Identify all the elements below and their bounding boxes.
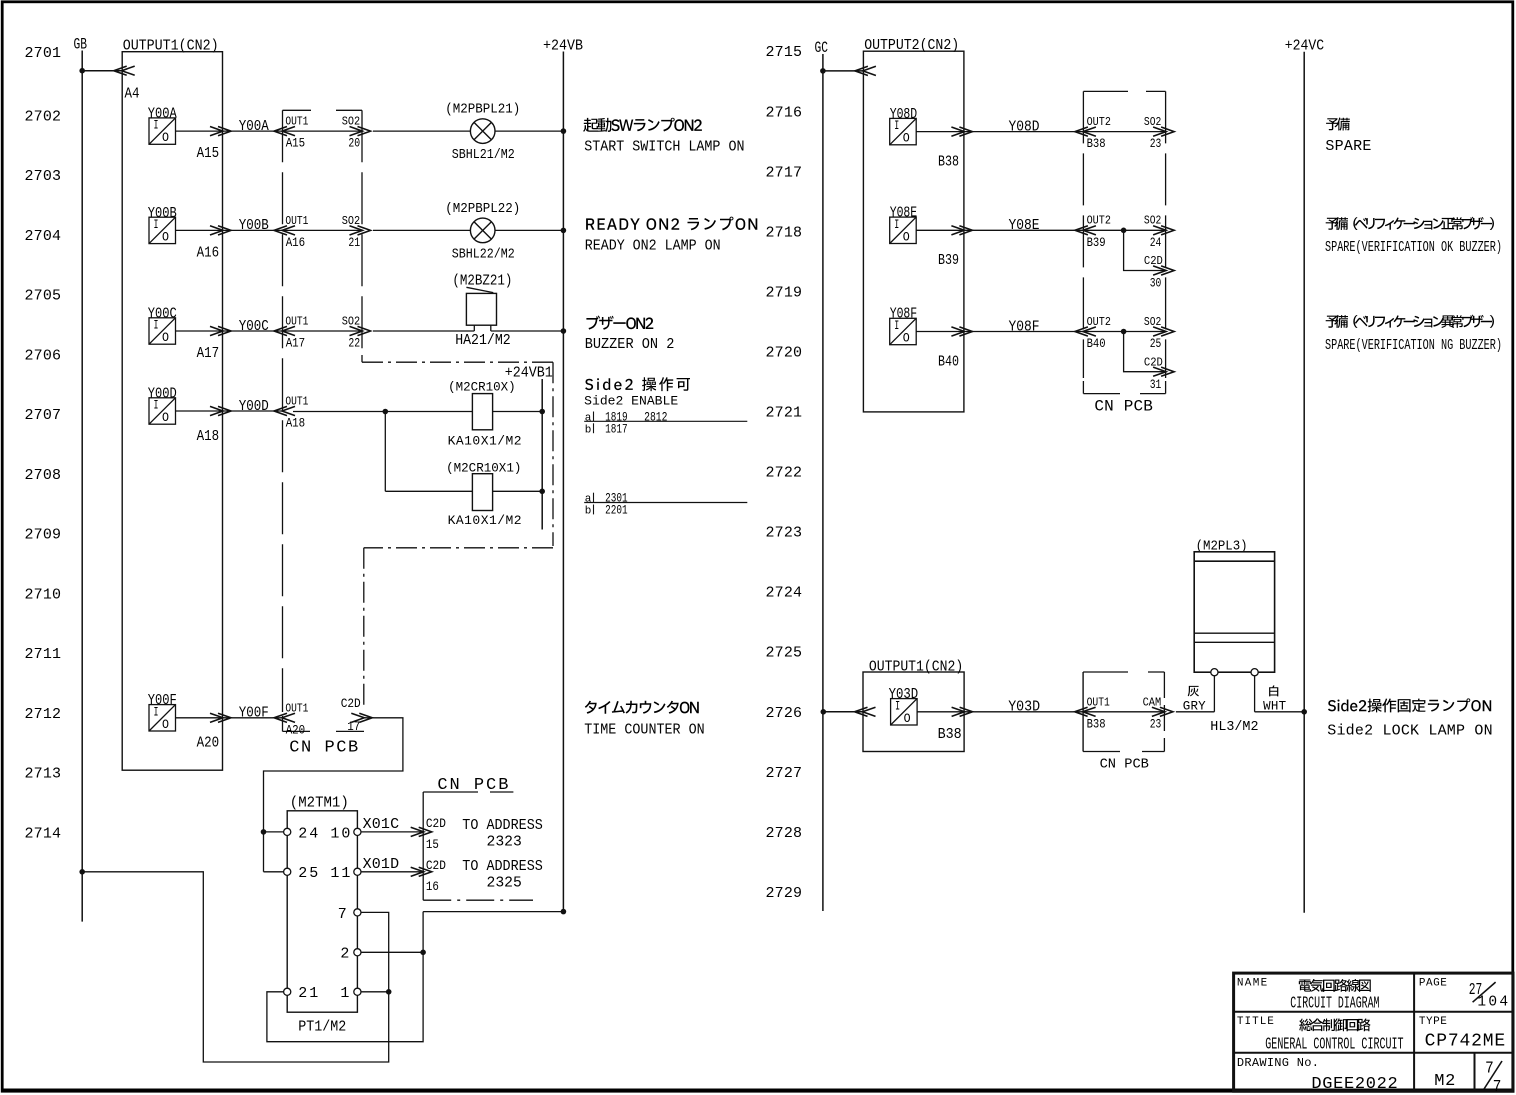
wire ref rule 2708 <box>584 502 747 504</box>
pin SO2/22 arrows <box>350 326 363 335</box>
wire net Y00A <box>223 130 283 132</box>
wire Y08D to bus <box>916 131 963 133</box>
svg-text:TO ADDRESS: TO ADDRESS <box>462 858 543 875</box>
pin OUT1/A15 arrows <box>282 127 295 136</box>
svg-text:OUT2: OUT2 <box>1087 315 1111 329</box>
svg-text:2711: 2711 <box>25 646 62 663</box>
wire Y00C to bus <box>176 330 223 332</box>
lead label WHT <box>1269 685 1278 696</box>
terminal GRY <box>1211 669 1218 676</box>
wire pin10 to X01C <box>361 831 423 833</box>
svg-text:2727: 2727 <box>766 765 803 782</box>
svg-text:SPARE(VERIFICATION NG BUZZER): SPARE(VERIFICATION NG BUZZER) <box>1325 337 1502 354</box>
svg-text:OUT1: OUT1 <box>1087 695 1110 709</box>
svg-text:A17: A17 <box>197 346 220 362</box>
svg-text:O: O <box>903 332 910 346</box>
svg-text:2709: 2709 <box>25 527 62 544</box>
svg-text:11: 11 <box>330 865 350 882</box>
svg-text:(M2PBPL22): (M2PBPL22) <box>445 201 520 217</box>
I/O module Y08D <box>890 107 959 171</box>
svg-text:TITLE: TITLE <box>1237 1016 1274 1028</box>
connector pin A15 arrows <box>210 127 223 136</box>
svg-text:SBHL22/M2: SBHL22/M2 <box>452 247 515 263</box>
svg-text:OUT1: OUT1 <box>285 315 308 329</box>
svg-text:24: 24 <box>298 825 318 842</box>
wire second relay to +24VB1 <box>493 490 543 492</box>
wire inside CN PCB <box>283 130 362 132</box>
junction pin 24 branch <box>261 829 267 835</box>
svg-text:Side2 ENABLE: Side2 ENABLE <box>584 394 678 409</box>
svg-text:START SWITCH LAMP ON: START SWITCH LAMP ON <box>584 139 744 156</box>
wire pin11 to X01D <box>361 871 423 873</box>
wire pin2 branch <box>361 951 423 953</box>
wire net Y00F <box>223 717 283 719</box>
svg-text:16: 16 <box>426 879 439 894</box>
svg-text:I: I <box>154 399 159 413</box>
svg-text:b: b <box>585 424 592 436</box>
wire Y08F to bus <box>916 331 963 333</box>
connector OUTPUT1(CN2) box <box>122 52 222 771</box>
svg-text:2724: 2724 <box>766 585 803 602</box>
junction GC row 2726 <box>821 709 827 715</box>
svg-text:A4: A4 <box>125 86 140 103</box>
svg-text:READY ON2 LAMP ON: READY ON2 LAMP ON <box>585 238 721 255</box>
svg-text:2706: 2706 <box>25 347 62 364</box>
svg-text:I: I <box>894 119 899 133</box>
svg-text:B40: B40 <box>938 354 959 370</box>
svg-text:A18: A18 <box>197 429 220 445</box>
svg-text:Y08D: Y08D <box>1009 118 1040 135</box>
wire inside CN PCB <box>283 229 362 231</box>
svg-text:2714: 2714 <box>25 825 62 842</box>
svg-text:2710: 2710 <box>25 586 62 603</box>
wire C2D-17 jog to M2TM1 <box>264 718 403 872</box>
wire inside CN PCB right <box>1084 331 1165 333</box>
svg-text:OUT1: OUT1 <box>285 395 308 409</box>
svg-text:SO2: SO2 <box>1144 115 1161 129</box>
svg-text:104: 104 <box>1477 994 1508 1010</box>
svg-text:(M2BZ21): (M2BZ21) <box>452 274 512 290</box>
pin 25 <box>284 868 291 875</box>
svg-text:2325: 2325 <box>487 875 522 892</box>
svg-text:O: O <box>903 132 910 146</box>
svg-text:2703: 2703 <box>25 168 62 185</box>
svg-text:B38: B38 <box>1087 717 1106 731</box>
svg-text:O: O <box>903 230 910 244</box>
svg-text:HL3/M2: HL3/M2 <box>1210 720 1258 735</box>
svg-text:30: 30 <box>1150 277 1162 291</box>
svg-text:GENERAL CONTROL CIRCUIT: GENERAL CONTROL CIRCUIT <box>1265 1036 1403 1055</box>
wire CAM to lamp GRY lead <box>1176 711 1215 713</box>
svg-text:A16: A16 <box>197 246 220 262</box>
svg-text:SO2: SO2 <box>342 214 360 228</box>
wire pin21 loop <box>267 912 423 1042</box>
svg-text:CN PCB: CN PCB <box>1100 757 1149 773</box>
wire to pin 24 <box>264 831 284 833</box>
svg-text:M2: M2 <box>1434 1072 1455 1091</box>
svg-text:15: 15 <box>426 837 439 852</box>
wire lamp to +24VB <box>495 229 563 231</box>
svg-text:2701: 2701 <box>25 45 62 62</box>
svg-text:17: 17 <box>347 719 360 734</box>
svg-text:B39: B39 <box>1087 236 1106 250</box>
wire Y00B to bus <box>176 229 223 231</box>
svg-text:(M2PBPL21): (M2PBPL21) <box>445 102 520 118</box>
connector pin A16 arrows <box>210 226 223 235</box>
wire branch down to second relay <box>384 412 386 492</box>
junction GB row 2701 <box>79 68 85 74</box>
svg-text:2702: 2702 <box>25 108 62 125</box>
svg-text:24: 24 <box>1150 236 1162 250</box>
svg-text:+24VC: +24VC <box>1285 37 1324 54</box>
wire GC to OUTPUT1 connector bottom <box>823 711 863 713</box>
svg-text:2712: 2712 <box>25 706 62 723</box>
svg-text:31: 31 <box>1150 378 1162 392</box>
I/O module Y00B <box>148 206 219 262</box>
svg-text:2705: 2705 <box>25 288 62 305</box>
wire net Y00D <box>223 410 283 412</box>
svg-text:PAGE: PAGE <box>1419 977 1447 989</box>
svg-text:2726: 2726 <box>766 705 803 722</box>
pin OUT1/A17 arrows <box>282 326 295 335</box>
svg-text:1: 1 <box>340 985 349 1002</box>
svg-text:Y00D: Y00D <box>239 398 269 415</box>
wire GC to OUTPUT2 connector <box>823 70 864 72</box>
wire inside CN PCB bottom <box>1084 711 1164 713</box>
wire C2D branch <box>1124 230 1165 270</box>
junction pin 1 <box>386 989 392 995</box>
wire net Y08F <box>964 331 1084 333</box>
pin OUT2/B38 arrows <box>1083 127 1096 136</box>
svg-text:TYPE: TYPE <box>1419 1016 1447 1028</box>
wire Y00A to bus <box>176 130 223 132</box>
wire SO2-22 to buzzer <box>373 330 474 332</box>
junction GC row 2715 <box>820 68 826 74</box>
connector pin arrows GC <box>863 66 876 75</box>
wire net Y08E <box>964 229 1084 231</box>
pin C2D/15 arrows X01C <box>411 827 424 836</box>
svg-text:GB: GB <box>74 36 88 54</box>
svg-text:23: 23 <box>1150 717 1162 731</box>
junction GB branch row 2713 <box>79 869 85 875</box>
pin 21 <box>284 988 291 995</box>
svg-text:O: O <box>162 230 169 244</box>
pin C2D/16 arrows X01D <box>411 867 424 876</box>
wire Y08E to bus <box>916 229 963 231</box>
grid line numbers left 2701-2714 <box>25 45 62 842</box>
junction node row 2707 <box>383 409 389 415</box>
svg-text:A18: A18 <box>286 417 306 431</box>
wire Y00F to bus <box>176 717 223 719</box>
grid line numbers right 2715-2729 <box>766 44 803 902</box>
wire net Y08D <box>964 131 1084 133</box>
junction +24VB1 row 2707 <box>539 409 545 415</box>
wire buzzer to +24VB <box>491 330 564 332</box>
pin OUT1/B38 arrows bottom <box>1083 707 1096 716</box>
wire Y00D to bus <box>176 410 223 412</box>
svg-text:a: a <box>585 494 592 506</box>
svg-text:I: I <box>894 218 899 232</box>
pin SO2/25 arrows <box>1153 327 1166 336</box>
svg-text:O: O <box>162 331 169 345</box>
pin SO2/20 arrows <box>350 127 363 136</box>
svg-text:2713: 2713 <box>25 766 62 783</box>
svg-text:2723: 2723 <box>766 525 803 542</box>
connector pin A17 arrows <box>210 326 223 335</box>
wire net Y00C <box>223 330 283 332</box>
svg-text:10: 10 <box>330 825 350 842</box>
wire to pin 25 <box>264 871 284 873</box>
svg-text:Y00C: Y00C <box>239 318 269 335</box>
label spare verification ng <box>1326 315 1494 328</box>
svg-text:A15: A15 <box>197 146 220 162</box>
svg-text:SO2: SO2 <box>342 315 360 329</box>
svg-text:2201: 2201 <box>605 503 628 518</box>
svg-text:I: I <box>895 699 900 713</box>
svg-text:Y00F: Y00F <box>239 705 269 722</box>
terminal WHT <box>1251 669 1258 676</box>
I/O module Y00A <box>148 107 219 163</box>
svg-text:O: O <box>162 411 169 425</box>
junction +24VB bottom <box>561 909 567 915</box>
wire C2D branch <box>1124 332 1165 372</box>
svg-text:A17: A17 <box>286 337 306 351</box>
svg-text:C2D: C2D <box>426 816 446 831</box>
CN PCB box bottom right half <box>1083 672 1164 752</box>
connector pin B40 arrows <box>951 327 964 336</box>
junction pin 2 <box>420 950 426 956</box>
pin 2 <box>354 949 361 956</box>
junction C2D branch <box>1121 228 1127 234</box>
label buzzer on 2 <box>586 316 653 330</box>
pin SO2/21 arrows <box>350 226 363 235</box>
wire Y03D to bus <box>917 711 964 713</box>
svg-text:DRAWING No.: DRAWING No. <box>1237 1056 1319 1070</box>
net GC rail <box>822 54 824 911</box>
pin OUT1/A20 arrows <box>282 713 295 722</box>
CN PCB boundary box left <box>283 109 312 111</box>
connector pin A4 arrows <box>122 66 135 75</box>
svg-text:SBHL21/M2: SBHL21/M2 <box>452 147 515 163</box>
svg-text:+24VB1: +24VB1 <box>505 365 553 382</box>
title block <box>1234 973 1513 1091</box>
wire net Y03D <box>964 711 1083 713</box>
wire lamp to +24VB <box>495 130 563 132</box>
svg-text:OUT2: OUT2 <box>1087 115 1111 129</box>
svg-text:B38: B38 <box>1087 137 1106 151</box>
wire inside CN PCB right <box>1084 229 1165 231</box>
pin C2D/31 arrows <box>1153 367 1166 376</box>
svg-text:2728: 2728 <box>766 825 803 842</box>
svg-text:C2D: C2D <box>341 696 361 711</box>
junction +24VB row 2706 <box>561 328 567 334</box>
svg-text:SO2: SO2 <box>342 115 360 129</box>
label time counter on <box>585 701 699 714</box>
wire net Y00B <box>223 229 283 231</box>
svg-text:TO ADDRESS: TO ADDRESS <box>462 817 543 834</box>
label ready on2 lamp on <box>586 217 757 231</box>
wire inside CN PCB <box>283 330 362 332</box>
CN PCB boundary jog dash-dot <box>362 361 553 363</box>
svg-text:OUTPUT1(CN2): OUTPUT1(CN2) <box>869 658 963 675</box>
junction C2D branch <box>1121 329 1127 335</box>
svg-text:2719: 2719 <box>766 284 803 301</box>
svg-text:B39: B39 <box>938 253 959 269</box>
svg-text:b: b <box>585 506 592 518</box>
lamp SBHL21/M2 <box>470 119 495 144</box>
svg-text:C2D: C2D <box>426 858 446 873</box>
svg-text:2721: 2721 <box>766 405 803 422</box>
wire WHT to +24VC <box>1255 711 1305 713</box>
pin 1 <box>354 988 361 995</box>
svg-text:SO2: SO2 <box>1144 315 1161 329</box>
svg-text:(M2TM1): (M2TM1) <box>290 795 349 812</box>
pin 7 <box>354 909 361 916</box>
svg-text:2323: 2323 <box>487 833 522 850</box>
svg-text:I: I <box>154 705 159 719</box>
svg-text:2716: 2716 <box>766 104 803 121</box>
timer M2TM1 box <box>287 811 357 1012</box>
svg-text:KA10X1/M2: KA10X1/M2 <box>448 513 522 528</box>
CN PCB boundary box right <box>1083 91 1165 393</box>
svg-text:21: 21 <box>298 985 318 1002</box>
svg-text:SPARE(VERIFICATION OK BUZZER): SPARE(VERIFICATION OK BUZZER) <box>1325 239 1502 256</box>
svg-text:Y00B: Y00B <box>239 217 269 234</box>
svg-text:OUT1: OUT1 <box>285 115 308 129</box>
pin C2D/30 arrows <box>1153 266 1166 275</box>
I/O module Y08F <box>890 307 959 371</box>
svg-text:7: 7 <box>1493 1078 1502 1095</box>
svg-text:BUZZER ON 2: BUZZER ON 2 <box>585 336 675 353</box>
net +24VC rail <box>1303 52 1305 913</box>
svg-text:NAME: NAME <box>1237 977 1268 989</box>
svg-text:X01D: X01D <box>363 856 400 873</box>
relay coil KA10X1/M2 <box>472 394 492 430</box>
svg-text:I: I <box>154 218 159 232</box>
junction +24VB row 2702 <box>561 128 567 134</box>
connector OUTPUT2(CN2) box <box>863 51 964 412</box>
label spare verification ok <box>1326 217 1494 230</box>
svg-text:OUT1: OUT1 <box>285 214 308 228</box>
svg-text:23: 23 <box>1150 137 1162 151</box>
pin 24 <box>284 828 291 835</box>
svg-text:2812: 2812 <box>644 409 667 424</box>
svg-text:C2D: C2D <box>1144 254 1163 268</box>
junction +24VC row 2726 <box>1301 709 1307 715</box>
pin 10 <box>354 828 361 835</box>
svg-text:CAM: CAM <box>1143 695 1162 709</box>
svg-text:GC: GC <box>815 39 829 57</box>
net +24VB rail <box>562 52 564 912</box>
svg-text:CIRCUIT DIAGRAM: CIRCUIT DIAGRAM <box>1290 995 1379 1014</box>
relay coil KA10X1/M2 second <box>472 474 492 511</box>
label spare 1 <box>1326 118 1350 131</box>
pin OUT2/B40 arrows <box>1083 327 1096 336</box>
svg-text:2704: 2704 <box>25 228 62 245</box>
connector pin arrows bottom <box>863 707 876 716</box>
CN PCB box bottom right <box>423 792 533 900</box>
svg-text:GRY: GRY <box>1183 700 1206 714</box>
wire pin1 stub <box>361 991 389 993</box>
svg-text:(M2CR10X): (M2CR10X) <box>448 381 515 395</box>
junction +24VB1 row 2708 <box>539 489 545 495</box>
connector OUTPUT1(CN2) bottom box <box>863 672 964 752</box>
svg-text:O: O <box>162 718 169 732</box>
label side2 lock lamp on <box>1328 698 1491 712</box>
svg-text:Y03D: Y03D <box>889 687 919 703</box>
svg-text:20: 20 <box>348 137 360 151</box>
svg-text:2725: 2725 <box>766 645 803 662</box>
svg-text:2708: 2708 <box>25 467 62 484</box>
svg-text:a: a <box>585 412 592 424</box>
svg-text:2722: 2722 <box>766 465 803 482</box>
junction +24VB row 2704 <box>561 228 567 234</box>
pin SO2/24 arrows <box>1153 226 1166 235</box>
svg-text:2707: 2707 <box>25 407 62 424</box>
svg-text:2718: 2718 <box>766 224 803 241</box>
svg-text:CP742ME: CP742ME <box>1425 1032 1506 1052</box>
lamp SBHL22/M2 <box>470 218 495 243</box>
connector pin A20 arrows <box>210 713 223 722</box>
svg-text:A20: A20 <box>197 735 220 751</box>
buzzer HA21/M2 <box>466 287 496 331</box>
svg-text:PT1/M2: PT1/M2 <box>298 1018 346 1035</box>
pin SO2/23 arrows <box>1153 127 1166 136</box>
svg-text:O: O <box>162 131 169 145</box>
pin CAM/23 arrows <box>1152 707 1165 716</box>
svg-text:25: 25 <box>1150 337 1162 351</box>
svg-text:TIME COUNTER ON: TIME COUNTER ON <box>584 721 705 738</box>
svg-text:X01C: X01C <box>363 816 400 833</box>
svg-text:I: I <box>154 319 159 333</box>
svg-text:DGEE2022: DGEE2022 <box>1311 1075 1397 1094</box>
svg-text:O: O <box>904 712 911 726</box>
svg-text:KA10X1/M2: KA10X1/M2 <box>448 434 522 449</box>
svg-text:Y03D: Y03D <box>1008 698 1040 715</box>
wire OUT1-A18 to relay KA10X1 <box>293 411 472 413</box>
CN PCB box bottom edge row Y00F <box>283 730 311 732</box>
svg-text:1817: 1817 <box>605 421 628 436</box>
svg-text:2729: 2729 <box>766 885 803 902</box>
wire relay to +24VB1 <box>493 411 543 413</box>
wire WHT lead down <box>1254 676 1256 712</box>
svg-text:2: 2 <box>340 946 349 963</box>
connector pin B38 arrows <box>951 127 964 136</box>
connector pin B38 arrows <box>952 707 965 716</box>
pin 11 <box>354 868 361 875</box>
wire GB to OUTPUT1 connector <box>82 70 122 72</box>
wire to +24VB rail bottom <box>423 911 563 913</box>
I/O module Y03D <box>889 687 962 743</box>
svg-text:OUT2: OUT2 <box>1087 214 1111 228</box>
svg-text:C2D: C2D <box>1144 355 1163 369</box>
net GB rail <box>81 51 83 922</box>
pin OUT1/A16 arrows <box>282 226 295 235</box>
svg-text:Y08E: Y08E <box>1009 217 1040 234</box>
svg-text:OUT1: OUT1 <box>285 701 308 715</box>
pin C2D/17 arrows <box>351 713 364 722</box>
svg-text:Side2 LOCK LAMP ON: Side2 LOCK LAMP ON <box>1327 723 1492 740</box>
I/O module Y08E <box>890 206 959 270</box>
label start switch lamp on <box>583 118 702 132</box>
svg-text:7: 7 <box>338 906 347 923</box>
label Side2 enable <box>585 377 690 391</box>
pin OUT1/A18 arrows <box>282 406 295 415</box>
wire ref rule 2707 <box>584 420 747 422</box>
svg-text:25: 25 <box>298 865 318 882</box>
wire inside CN PCB right <box>1084 131 1165 133</box>
svg-text:CN PCB: CN PCB <box>1094 398 1153 416</box>
